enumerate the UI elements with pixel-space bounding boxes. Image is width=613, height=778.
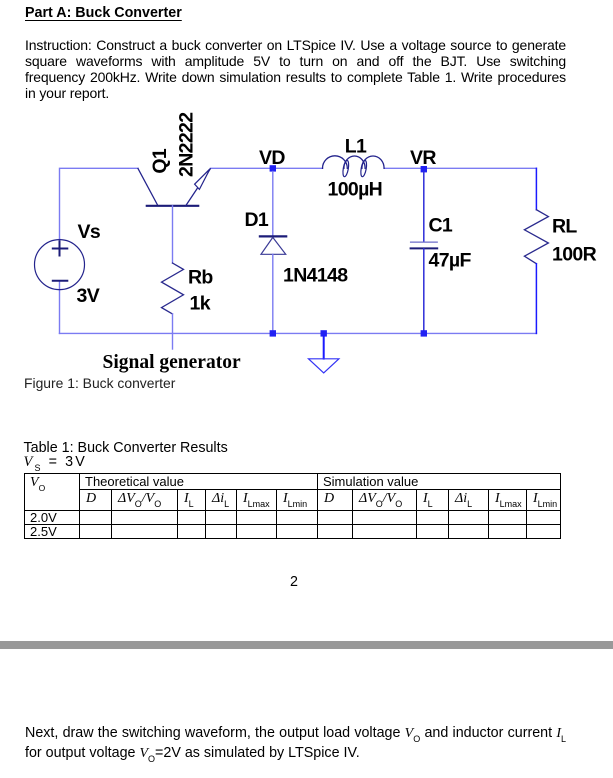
transistor Q1 emitter arrow [195,169,210,190]
figure caption [24,375,175,391]
node square below diode [270,330,276,336]
table title [24,440,228,456]
ground stem [323,336,325,359]
wire top rail after inductor [384,167,536,169]
transistor Q1 base bar [147,205,198,207]
wire bottom rail [60,332,537,334]
svg-text:47µF: 47µF [429,250,472,272]
resistor RL zigzag [524,210,548,264]
svg-text:Vs: Vs [78,221,101,243]
svg-text:3V: 3V [77,285,100,307]
wire signal generator stub [172,333,174,349]
wire diode to bottom rail [272,254,274,333]
svg-text:1N4148: 1N4148 [283,265,348,287]
transistor Q1 collector diagonal [138,169,158,206]
diode D1 triangle [261,237,286,254]
Vs = 3V [24,454,87,471]
wire right rail lower [535,264,537,334]
instruction paragraph [25,38,566,101]
svg-text:Rb: Rb [188,267,213,289]
inductor L1 arc 1 [323,156,348,169]
wire C1 to bottom rail [423,249,425,333]
wire Rb to bottom rail [172,314,174,333]
wire base to Rb [172,206,174,263]
svg-text:D1: D1 [245,209,269,231]
capacitor C1 bottom plate [411,247,438,249]
svg-text:VD: VD [259,147,285,169]
svg-text:100µH: 100µH [328,179,383,201]
resistor Rb zigzag [162,263,184,314]
svg-text:2N2222: 2N2222 [176,112,198,177]
inductor L1 crossover loop 2 [360,160,368,177]
wire top rail right segment [211,167,323,169]
node VR square [421,166,427,172]
wire left rail lower [59,290,61,333]
node VD square [270,165,276,171]
svg-text:RL: RL [552,216,577,238]
ground symbol triangle [309,359,339,373]
wire top rail left segment [60,168,139,239]
svg-text:Q1: Q1 [149,148,171,174]
inductor L1 arc 2 [344,156,365,168]
svg-text:100R: 100R [552,244,597,266]
plus sign [53,242,68,256]
svg-text:VR: VR [410,147,436,169]
wire through source [59,239,61,255]
diode D1 cathode bar [260,235,286,237]
inductor L1 arc 3 [362,156,384,168]
node square below C1 [421,330,427,336]
page number 2 [290,574,298,590]
svg-text:1k: 1k [190,293,211,315]
wire VD to diode [272,172,274,237]
heading: Part A: Buck Converter [25,5,182,21]
node square ground junction [321,330,327,336]
inductor L1 crossover loop 1 [342,160,350,177]
wire VR to C1 [423,172,425,242]
bottom paragraph [25,724,566,763]
svg-text:Signal generator: Signal generator [103,352,241,373]
page separator gray bar [0,641,613,649]
capacitor C1 top plate [411,241,438,243]
svg-text:L1: L1 [345,136,367,158]
voltage source V1 circle [35,240,85,290]
table 1 [24,473,561,539]
minus sign [53,280,68,282]
transistor Q1 emitter diagonal [186,169,210,206]
svg-text:C1: C1 [429,215,453,237]
wire right rail upper [535,168,537,209]
